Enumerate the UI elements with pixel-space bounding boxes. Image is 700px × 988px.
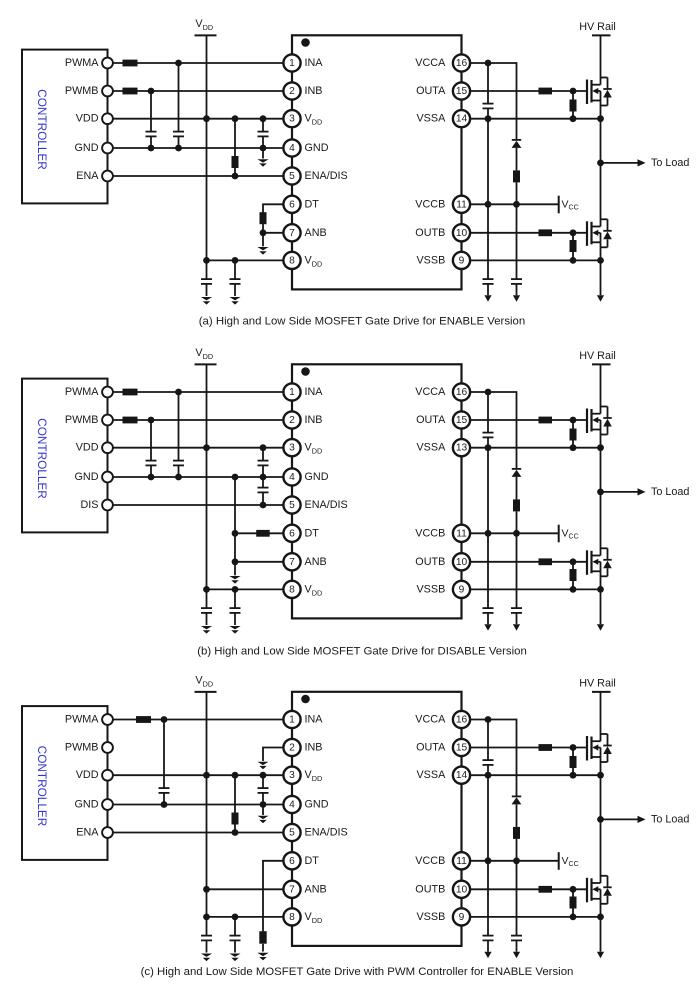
svg-text:15: 15 (456, 86, 468, 97)
svg-text:5: 5 (289, 500, 295, 511)
svg-text:VDD: VDD (76, 442, 99, 454)
svg-text:GND: GND (305, 471, 329, 483)
svg-text:10: 10 (456, 884, 468, 895)
arrow HV return cap1 a (484, 295, 491, 302)
svg-text:1: 1 (289, 715, 295, 726)
IC pin 2 circle b (283, 411, 300, 428)
svg-text:INA: INA (305, 57, 324, 69)
ground bulk cap 1 b (201, 626, 212, 629)
svg-text:(a) High and Low Side MOSFET G: (a) High and Low Side MOSFET Gate Drive … (199, 315, 525, 327)
junction PWMB cap top b (148, 417, 155, 424)
wire OUTB b (470, 561, 587, 563)
IC pin 16 circle b (453, 383, 470, 400)
VDD supply rail c (195, 675, 217, 917)
IC pin 16 circle c (453, 711, 470, 728)
diode bootstrap a (512, 139, 522, 170)
junction gate resistor B bottom b (570, 586, 577, 593)
svg-text:VDD: VDD (76, 769, 99, 781)
IC pin 7 circle a (283, 224, 300, 241)
arrow HV return c (597, 952, 604, 959)
junction bottom cap2 b (232, 586, 239, 593)
junction bottom cap2 c (232, 914, 239, 921)
junction VCCB cap1 a (485, 201, 492, 208)
svg-text:To Load: To Load (651, 813, 689, 825)
resistor PWMA series c (136, 716, 151, 723)
wire chain to ANB pin7 b (235, 561, 284, 563)
svg-text:HV Rail: HV Rail (579, 21, 616, 33)
wire VDD to pin3 c (113, 774, 284, 776)
IC pin 10 circle b (453, 553, 470, 570)
junction decoupling bottom a (260, 145, 267, 152)
arrow To Load a (638, 159, 646, 166)
svg-text:VSSA: VSSA (416, 442, 446, 454)
wire VCCA b (470, 392, 517, 468)
IC pin 3 circle b (283, 439, 300, 456)
arrow To Load c (638, 816, 646, 823)
wire VSSB c (470, 916, 601, 918)
svg-text:To Load: To Load (651, 486, 689, 498)
junction PWMA cap top a (175, 60, 182, 67)
controller pin GND circle b (102, 472, 113, 483)
VDD supply rail a (195, 18, 217, 260)
svg-text:GND: GND (305, 799, 329, 811)
junction bottom cap2 a (232, 257, 239, 264)
IC pin 5 circle b (283, 496, 300, 513)
controller pin VDD circle a (102, 113, 113, 124)
IC pin 3 circle a (283, 110, 300, 127)
VCC supply b (559, 525, 579, 543)
junction gate B a (570, 229, 577, 236)
IC pin 9 circle a (453, 252, 470, 269)
IC pin 15 circle a (453, 82, 470, 99)
wire ENA to pin5 c (113, 832, 284, 834)
resistor PWMB series b (123, 417, 138, 424)
transistor low-side MOSFET b (587, 548, 612, 576)
svg-text:OUTA: OUTA (416, 742, 446, 754)
svg-text:PWMB: PWMB (65, 414, 99, 426)
wire VSSB a (470, 259, 601, 261)
wire HV rail to drain A c (600, 692, 602, 741)
junction decoupling bottom c (260, 801, 267, 808)
ground bulk cap 2 a (229, 297, 240, 300)
svg-text:3: 3 (289, 114, 295, 125)
controller pin PWMB circle a (102, 86, 113, 97)
svg-text:1: 1 (289, 58, 295, 69)
svg-text:7: 7 (289, 228, 295, 239)
ground decoupling a (257, 159, 268, 162)
IC pin 4 circle c (283, 796, 300, 813)
resistor PWMA series a (123, 60, 138, 67)
svg-text:ENA: ENA (76, 827, 99, 839)
junction gate A c (570, 744, 577, 751)
junction VSSA switch node b (597, 444, 604, 451)
IC pin 2 circle a (283, 82, 300, 99)
junction decoupling top c (260, 772, 267, 779)
resistor gate-source A a (570, 91, 577, 119)
svg-text:OUTB: OUTB (415, 883, 445, 895)
svg-text:8: 8 (289, 255, 295, 266)
svg-text:9: 9 (459, 584, 465, 595)
controller pin GND circle c (102, 799, 113, 810)
svg-text:HV Rail: HV Rail (579, 678, 616, 690)
junction bootstrap cap VSSA c (485, 772, 492, 779)
resistor gate-source B a (570, 233, 577, 261)
controller pin VDD circle b (102, 442, 113, 453)
svg-text:VCC: VCC (562, 199, 579, 211)
svg-text:VCCB: VCCB (415, 855, 445, 867)
svg-text:15: 15 (456, 743, 468, 754)
wire decoupling to ground c (262, 805, 264, 816)
wire PWMA to INA b (113, 391, 284, 393)
svg-text:HV Rail: HV Rail (579, 350, 616, 362)
IC gate driver c (292, 692, 462, 946)
ground decoupling c (257, 816, 268, 819)
wire VCCB rail down cap1 b (487, 448, 489, 534)
svg-text:16: 16 (456, 715, 468, 726)
IC pin 6 circle b (283, 525, 300, 542)
wire pin8 VDD a (207, 259, 284, 261)
svg-text:8: 8 (289, 912, 295, 923)
junction bootstrap VCCB c (513, 857, 520, 864)
capacitor PWMA-GND b (173, 392, 184, 477)
svg-text:ANB: ANB (305, 556, 327, 568)
capacitor VDD decoupling a (258, 119, 269, 148)
resistor OUTA gate a (539, 88, 553, 95)
VCC supply a (559, 196, 579, 214)
wire VSSA b (470, 447, 601, 449)
wire To Load b (601, 491, 638, 493)
wire switch node c (600, 757, 602, 883)
svg-text:9: 9 (459, 912, 465, 923)
svg-text:1: 1 (289, 387, 295, 398)
controller pin VDD circle c (102, 770, 113, 781)
IC pin 13 circle b (453, 439, 470, 456)
wire VCCB rail down cap1 c (487, 775, 489, 861)
svg-text:11: 11 (456, 856, 467, 867)
capacitor VCC bypass 2 c (511, 861, 522, 952)
wire VDD to pin3 a (113, 118, 284, 120)
junction VCCB cap1 b (485, 530, 492, 537)
svg-text:INA: INA (305, 714, 324, 726)
svg-text:10: 10 (456, 557, 468, 568)
controller pin PWMA circle c (102, 714, 113, 725)
svg-text:10: 10 (456, 228, 468, 239)
wire VCCB to VCC a (470, 203, 559, 205)
controller pin PWMB circle b (102, 415, 113, 426)
ground INB c (257, 762, 268, 765)
junction VDD rail pin3 b (203, 444, 210, 451)
svg-text:ENA/DIS: ENA/DIS (305, 827, 348, 839)
junction VDD rail pin8 c (203, 914, 210, 921)
wire ANB to ground b (234, 562, 236, 576)
svg-text:VCCA: VCCA (415, 714, 446, 726)
junction gate resistor A bottom a (570, 115, 577, 122)
capacitor VDD bulk 2 a (230, 260, 241, 296)
transistor high-side MOSFET c (587, 734, 612, 762)
resistor OUTB gate b (539, 558, 553, 565)
junction decoupling bottom b (260, 474, 267, 481)
resistor gate-source A b (570, 420, 577, 448)
capacitor VCC bypass 1 c (483, 861, 494, 952)
junction PWMA cap bottom b (175, 474, 182, 481)
ground bulk cap 2 b (229, 626, 240, 629)
svg-text:VCC: VCC (562, 855, 579, 867)
junction VDD rail pin8 a (203, 257, 210, 264)
junction To Load b (597, 489, 604, 496)
controller pin DIS circle b (102, 500, 113, 511)
junction bootstrap VCCB b (513, 530, 520, 537)
svg-text:DT: DT (305, 855, 320, 867)
ground bulk cap 1 a (201, 297, 212, 300)
IC pin 11 circle c (453, 852, 470, 869)
wire resistor to ANB pin7 a (263, 232, 284, 234)
wire To Load a (601, 162, 638, 164)
svg-text:INB: INB (305, 742, 323, 754)
junction PWMB cap top a (148, 88, 155, 95)
IC pin 16 circle a (453, 54, 470, 71)
ground bulk cap 2 c (229, 954, 240, 957)
IC pin 11 circle a (453, 196, 470, 213)
wire OUTA c (470, 747, 587, 749)
IC pin 15 circle b (453, 411, 470, 428)
svg-text:11: 11 (456, 199, 467, 210)
junction VCCB cap1 c (485, 857, 492, 864)
pin1 marker a (301, 38, 310, 47)
junction gate resistor A bottom b (570, 444, 577, 451)
pin1 marker c (301, 695, 310, 704)
junction VCCA cap b (485, 389, 492, 396)
resistor PWMB series a (123, 88, 138, 95)
capacitor bootstrap A b (483, 392, 494, 448)
wire VDD to pin3 b (113, 447, 284, 449)
wire OUTA b (470, 419, 587, 421)
svg-text:4: 4 (289, 800, 295, 811)
arrow HV return cap2 c (513, 952, 520, 959)
svg-text:PWMB: PWMB (65, 85, 99, 97)
ground bulk cap 1 c (201, 954, 212, 957)
arrow HV return cap1 c (484, 952, 491, 959)
IC pin 1 circle c (283, 711, 300, 728)
IC pin 14 circle a (453, 110, 470, 127)
resistor DT to ANB a (260, 204, 284, 233)
IC pin 9 circle b (453, 581, 470, 598)
HV rail bar c (592, 691, 611, 693)
diode bootstrap b (512, 468, 522, 499)
capacitor VCC bypass 2 b (511, 533, 522, 624)
wire VCCA c (470, 720, 517, 796)
svg-text:8: 8 (289, 584, 295, 595)
controller pin ENA circle c (102, 827, 113, 838)
wire source B down a (600, 242, 602, 295)
svg-text:VCCB: VCCB (415, 527, 445, 539)
ground DT resistor c (257, 953, 268, 956)
svg-text:2: 2 (289, 86, 295, 97)
wire To Load c (601, 818, 638, 820)
svg-text:ANB: ANB (305, 227, 327, 239)
capacitor VDD bulk 2 c (230, 917, 241, 953)
IC pin 4 circle b (283, 468, 300, 485)
capacitor PWMA-GND c (159, 720, 170, 805)
svg-text:GND: GND (75, 471, 99, 483)
wire ANB to ground a (262, 233, 264, 247)
junction pull-up top c (232, 772, 239, 779)
transistor low-side MOSFET a (587, 219, 612, 247)
svg-text:PWMB: PWMB (65, 742, 99, 754)
svg-text:(b) High and Low Side MOSFET G: (b) High and Low Side MOSFET Gate Drive … (197, 645, 527, 657)
junction pull-up top a (232, 115, 239, 122)
wire HV rail to drain A b (600, 364, 602, 413)
IC pin 5 circle c (283, 824, 300, 841)
junction gate A a (570, 88, 577, 95)
svg-text:3: 3 (289, 770, 295, 781)
capacitor bootstrap A c (483, 720, 494, 776)
svg-text:5: 5 (289, 828, 295, 839)
junction To Load c (597, 816, 604, 823)
controller pin ENA circle a (102, 171, 113, 182)
controller pin GND circle a (102, 143, 113, 154)
junction VSSA switch node c (597, 772, 604, 779)
svg-text:VSSB: VSSB (416, 911, 445, 923)
svg-text:9: 9 (459, 255, 465, 266)
resistor OUTA gate b (539, 417, 553, 424)
wire VSSB b (470, 588, 601, 590)
wire GND to DT chain b (234, 477, 236, 562)
junction VDD rail pin3 c (203, 772, 210, 779)
wire pin8 VDD b (207, 588, 284, 590)
svg-text:2: 2 (289, 743, 295, 754)
junction ANB a (260, 229, 267, 236)
capacitor PWMB-GND a (146, 91, 157, 148)
wire source B down c (600, 899, 602, 952)
junction bootstrap cap VSSA b (485, 444, 492, 451)
svg-text:3: 3 (289, 443, 295, 454)
resistor gate-source B c (570, 889, 577, 917)
controller box c (22, 706, 108, 860)
capacitor PWMA-GND a (173, 63, 184, 148)
svg-text:GND: GND (75, 142, 99, 154)
junction To Load a (597, 160, 604, 167)
svg-text:INA: INA (305, 386, 324, 398)
svg-text:16: 16 (456, 58, 468, 69)
wire GND to pin4 b (113, 476, 284, 478)
svg-text:VCCA: VCCA (415, 386, 446, 398)
wire VSSA c (470, 774, 601, 776)
VDD supply rail b (195, 347, 217, 589)
junction VCCA cap c (485, 716, 492, 723)
capacitor VDD bulk 1 a (201, 260, 212, 296)
IC pin 9 circle c (453, 908, 470, 925)
svg-text:VDD: VDD (76, 113, 99, 125)
junction decoupling top a (260, 115, 267, 122)
capacitor VDD decoupling c (258, 775, 269, 804)
junction gate A b (570, 417, 577, 424)
junction VSSB source B b (597, 586, 604, 593)
controller box a (22, 50, 108, 204)
svg-text:VDD: VDD (195, 347, 213, 361)
IC pin 11 circle b (453, 525, 470, 542)
svg-text:4: 4 (289, 143, 295, 154)
junction ANB VDD rail c (203, 886, 210, 893)
junction pull-up bottom a (232, 173, 239, 180)
svg-text:11: 11 (456, 528, 467, 539)
capacitor VCC bypass 1 b (483, 533, 494, 624)
svg-text:CONTROLLER: CONTROLLER (35, 89, 49, 170)
resistor bootstrap c (513, 827, 520, 861)
junction gate resistor A bottom c (570, 772, 577, 779)
junction gate resistor B bottom a (570, 257, 577, 264)
svg-text:INB: INB (305, 85, 323, 97)
wire source B down b (600, 571, 602, 624)
arrow HV return cap1 b (484, 624, 491, 631)
svg-text:GND: GND (75, 799, 99, 811)
resistor OUTA gate c (539, 744, 553, 751)
junction VSSB source B c (597, 914, 604, 921)
wire ENA to pin5 a (113, 175, 284, 177)
wire HV rail to drain A a (600, 35, 602, 84)
svg-text:ANB: ANB (305, 883, 327, 895)
svg-text:14: 14 (456, 114, 468, 125)
IC gate driver b (292, 364, 462, 618)
svg-text:ENA: ENA (76, 170, 99, 182)
svg-text:VCCA: VCCA (415, 57, 446, 69)
HV rail bar b (592, 363, 611, 365)
wire VCCB rail down cap1 a (487, 119, 489, 205)
controller pin PWMA circle b (102, 387, 113, 398)
svg-text:To Load: To Load (651, 157, 689, 169)
svg-text:OUTB: OUTB (415, 227, 445, 239)
junction VDD rail pin3 a (203, 115, 210, 122)
controller pin PWMA circle a (102, 58, 113, 69)
svg-text:VCCB: VCCB (415, 198, 445, 210)
wire ANB to VDD rail c (207, 888, 284, 890)
IC pin 8 circle c (283, 908, 300, 925)
junction gate resistor B bottom c (570, 914, 577, 921)
IC pin 5 circle a (283, 167, 300, 184)
wire resistor to ground c (262, 944, 264, 952)
ground ANB a (257, 247, 268, 250)
resistor gate-source A c (570, 748, 577, 776)
resistor OUTB gate a (539, 229, 553, 236)
IC pin 10 circle a (453, 224, 470, 241)
wire OUTB c (470, 888, 587, 890)
arrow HV return cap2 a (513, 295, 520, 302)
svg-text:6: 6 (289, 856, 295, 867)
svg-text:PWMA: PWMA (65, 386, 99, 398)
svg-text:VSSA: VSSA (416, 113, 446, 125)
wire VSSA a (470, 118, 601, 120)
svg-text:CONTROLLER: CONTROLLER (35, 418, 49, 499)
wire VCCB to VCC b (470, 532, 559, 534)
svg-text:VDD: VDD (195, 675, 213, 689)
arrow HV return cap2 b (513, 624, 520, 631)
svg-text:OUTB: OUTB (415, 556, 445, 568)
svg-text:VSSB: VSSB (416, 254, 445, 266)
resistor gate-source B b (570, 562, 577, 590)
junction VDD rail pin8 b (203, 586, 210, 593)
svg-text:ENA/DIS: ENA/DIS (305, 170, 348, 182)
resistor DT bottom c (259, 931, 266, 944)
capacitor VDD decoupling b (258, 448, 269, 477)
IC pin 7 circle b (283, 553, 300, 570)
svg-text:(c) High and Low Side MOSFET G: (c) High and Low Side MOSFET Gate Drive … (141, 966, 574, 978)
resistor DT b (256, 530, 270, 537)
wire PWMA to INA c (113, 719, 284, 721)
wire OUTA a (470, 90, 587, 92)
resistor bootstrap b (513, 499, 520, 533)
IC gate driver a (292, 35, 462, 289)
arrow HV return b (597, 624, 604, 631)
svg-text:6: 6 (289, 199, 295, 210)
